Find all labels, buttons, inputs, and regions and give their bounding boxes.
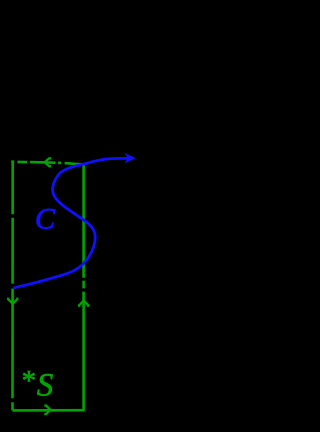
- contour S right edge: [82, 165, 85, 410]
- contour S top edge (dashed): [11, 162, 82, 165]
- svg-text:*: *: [20, 365, 35, 397]
- curve C (blue S-shaped path): [13, 158, 131, 288]
- svg-text:C: C: [35, 203, 56, 236]
- contour S left edge: [11, 162, 14, 411]
- arrow up (right edge, chevron): [79, 301, 88, 307]
- arrow left (top edge, chevron): [45, 158, 52, 166]
- arrow down (left edge, chevron): [8, 298, 17, 304]
- arrow right (bottom edge, chevron): [44, 406, 50, 415]
- svg-text:S: S: [37, 368, 54, 404]
- arrowhead of curve C: [126, 155, 134, 162]
- contour S bottom edge: [13, 409, 85, 412]
